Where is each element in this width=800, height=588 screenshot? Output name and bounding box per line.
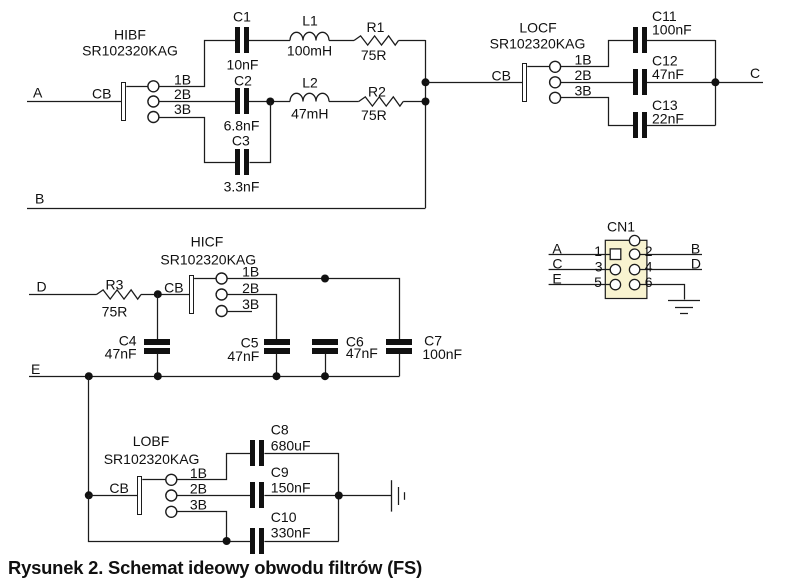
label 2B HIBF bbox=[174, 86, 191, 102]
wire L1 to R1 bbox=[329, 40, 354, 42]
node B label bbox=[35, 191, 44, 207]
svg-text:R2: R2 bbox=[368, 83, 386, 99]
wire right rail HIBF bbox=[425, 40, 427, 208]
wire 1B row HICF bbox=[228, 279, 400, 340]
CN1 label bbox=[607, 218, 635, 234]
wire rail LOBF bbox=[338, 453, 340, 541]
CN1 pin 6 bbox=[629, 279, 639, 289]
junction C12 rail bbox=[711, 78, 719, 86]
svg-text:HIBF: HIBF bbox=[114, 27, 146, 43]
wire E row bbox=[29, 376, 400, 378]
svg-text:1B: 1B bbox=[174, 71, 191, 87]
label L2 bbox=[302, 74, 318, 90]
switch LOBF pivot bbox=[142, 479, 166, 481]
CB label HICF bbox=[164, 279, 183, 295]
svg-text:A: A bbox=[552, 240, 562, 256]
label 1B LOBF bbox=[190, 465, 207, 481]
svg-text:100nF: 100nF bbox=[422, 346, 462, 362]
switch LOBF contact 1B bbox=[166, 474, 177, 485]
svg-text:C10: C10 bbox=[271, 509, 297, 525]
wire 3B to C3 bbox=[159, 118, 236, 163]
switch LOBF contact 2B bbox=[166, 490, 177, 501]
label C4 bbox=[105, 332, 137, 361]
node E label CN1 bbox=[552, 271, 561, 287]
capacitor C5 bbox=[264, 339, 290, 354]
ground CN1 bbox=[668, 301, 700, 314]
wire bottom rail LOBF bbox=[89, 496, 251, 542]
svg-text:A: A bbox=[33, 85, 43, 101]
label 2B LOCF bbox=[575, 67, 592, 83]
label 3B HICF bbox=[242, 296, 259, 312]
junction 3B bottom bbox=[223, 537, 231, 545]
svg-text:100nF: 100nF bbox=[652, 22, 692, 38]
resistor R1 bbox=[354, 36, 399, 45]
svg-text:C3: C3 bbox=[232, 132, 250, 148]
svg-text:2B: 2B bbox=[242, 280, 259, 296]
svg-text:SR102320KAG: SR102320KAG bbox=[104, 451, 200, 467]
resistor R2 bbox=[359, 97, 404, 106]
wire CB LOCF bbox=[426, 82, 523, 84]
svg-text:1B: 1B bbox=[190, 465, 207, 481]
label 3B HIBF bbox=[174, 101, 191, 117]
switch LOCF common bar bbox=[523, 64, 527, 102]
wire pin4 to D bbox=[640, 269, 702, 271]
svg-text:22nF: 22nF bbox=[652, 111, 684, 127]
node A label bbox=[33, 85, 43, 101]
svg-text:47nF: 47nF bbox=[652, 66, 684, 82]
svg-text:LOBF: LOBF bbox=[133, 433, 170, 449]
svg-text:CB: CB bbox=[164, 279, 183, 295]
svg-text:3B: 3B bbox=[190, 497, 207, 513]
switch HICF contact 3B bbox=[216, 306, 227, 317]
svg-text:SR102320KAG: SR102320KAG bbox=[82, 43, 178, 59]
CN1 pin 2 bbox=[629, 249, 639, 259]
HIBF switch label bbox=[82, 27, 178, 59]
label 75R R1 bbox=[361, 47, 387, 63]
switch HIBF contact 2B bbox=[148, 96, 159, 107]
svg-text:R1: R1 bbox=[367, 19, 385, 35]
label 2B LOBF bbox=[190, 481, 207, 497]
svg-text:3: 3 bbox=[595, 259, 603, 275]
wire C12 to C bbox=[647, 82, 763, 84]
capacitor C3 bbox=[235, 149, 249, 175]
svg-text:E: E bbox=[31, 361, 40, 377]
svg-text:2: 2 bbox=[645, 243, 653, 259]
svg-text:C: C bbox=[750, 65, 760, 81]
wire D input bbox=[29, 294, 97, 296]
svg-text:2B: 2B bbox=[174, 86, 191, 102]
pin number 2 bbox=[645, 243, 653, 259]
label 75R R2 bbox=[361, 107, 387, 123]
junction CB LOBF bbox=[85, 491, 93, 499]
pin number 3 bbox=[595, 259, 603, 275]
pin number 1 bbox=[594, 243, 602, 259]
wire R2 to rail bbox=[403, 101, 425, 103]
wire C2 to L2 bbox=[249, 101, 290, 103]
CN1 index circle bbox=[629, 235, 639, 245]
junction E-LOBF bbox=[85, 372, 93, 380]
switch HICF pivot bbox=[194, 278, 216, 280]
junction rail-CB LOCF bbox=[422, 78, 430, 86]
CB label LOBF bbox=[109, 480, 128, 496]
svg-text:E: E bbox=[552, 271, 561, 287]
svg-text:CN1: CN1 bbox=[607, 218, 635, 234]
svg-text:4: 4 bbox=[645, 259, 653, 275]
wire C6 bottom bbox=[325, 353, 327, 376]
wire C3 to node bbox=[250, 102, 271, 163]
node C label CN1 bbox=[552, 255, 562, 271]
capacitor C6 bbox=[312, 339, 338, 354]
capacitor C7 bbox=[386, 339, 412, 354]
wire CB LOBF bbox=[89, 495, 138, 497]
svg-text:R3: R3 bbox=[106, 276, 124, 292]
switch LOBF common bar bbox=[138, 477, 142, 515]
svg-text:D: D bbox=[37, 278, 47, 294]
switch HICF contact 2B bbox=[216, 289, 227, 300]
svg-text:3B: 3B bbox=[174, 101, 191, 117]
switch HIBF common bar bbox=[122, 83, 126, 121]
node D label CN1 bbox=[691, 255, 701, 271]
wire L2 to R2 bbox=[329, 101, 359, 103]
switch HIBF contact 3B bbox=[148, 112, 159, 123]
wire R3 to bar bbox=[141, 294, 190, 296]
HICF switch label bbox=[160, 233, 256, 267]
label C7 bbox=[422, 332, 462, 361]
junction C9 rail bbox=[335, 492, 343, 500]
svg-text:100mH: 100mH bbox=[287, 43, 332, 59]
label C12 bbox=[652, 53, 684, 82]
svg-text:5: 5 bbox=[594, 274, 602, 290]
svg-text:680uF: 680uF bbox=[271, 438, 311, 454]
junction R3-C4 bbox=[154, 290, 162, 298]
switch HIBF pivot bbox=[126, 86, 148, 88]
junction E-C4 bbox=[154, 372, 162, 380]
wire 3B stub bbox=[227, 311, 252, 313]
svg-text:2B: 2B bbox=[190, 481, 207, 497]
switch LOBF contact 3B bbox=[166, 506, 177, 517]
switch LOCF contact 3B bbox=[550, 92, 561, 103]
svg-text:L2: L2 bbox=[302, 74, 318, 90]
svg-text:CB: CB bbox=[92, 86, 111, 102]
label 1B LOCF bbox=[575, 52, 592, 68]
svg-text:C8: C8 bbox=[271, 422, 289, 438]
label C1 bbox=[233, 8, 251, 24]
wire R1 to right rail bbox=[399, 40, 426, 42]
svg-text:D: D bbox=[691, 255, 701, 271]
wire C11 right bbox=[647, 40, 715, 42]
junction rail-row2 bbox=[422, 98, 430, 106]
svg-text:47nF: 47nF bbox=[227, 348, 259, 364]
wire pin6 to ground bbox=[640, 285, 685, 300]
svg-text:L1: L1 bbox=[302, 12, 318, 28]
wire C7 bottom bbox=[399, 353, 401, 376]
label C13 bbox=[652, 97, 684, 126]
svg-text:HICF: HICF bbox=[191, 233, 224, 249]
node D label bbox=[37, 278, 47, 294]
svg-text:1: 1 bbox=[594, 243, 602, 259]
label 3B LOCF bbox=[575, 83, 592, 99]
svg-text:10nF: 10nF bbox=[227, 56, 259, 72]
svg-text:C9: C9 bbox=[271, 464, 289, 480]
wire pin2 to B bbox=[640, 254, 702, 256]
connector CN1 body bbox=[605, 240, 647, 298]
wire A input bbox=[27, 101, 122, 103]
wire B bbox=[27, 208, 426, 210]
wire C10 right bbox=[264, 541, 338, 543]
pin number 5 bbox=[594, 274, 602, 290]
resistor R3 bbox=[97, 290, 142, 299]
svg-text:2B: 2B bbox=[575, 67, 592, 83]
capacitor C11 bbox=[633, 27, 647, 53]
CB label HIBF bbox=[92, 86, 111, 102]
svg-text:47mH: 47mH bbox=[291, 105, 328, 121]
junction 1B-C6 bbox=[321, 275, 329, 283]
label 1B HIBF bbox=[174, 71, 191, 87]
label C5 bbox=[227, 334, 259, 363]
wire C4 bottom bbox=[157, 353, 159, 376]
svg-text:75R: 75R bbox=[361, 107, 387, 123]
wire 3B down bbox=[177, 512, 227, 542]
svg-text:Rysunek 2. Schemat ideowy obwo: Rysunek 2. Schemat ideowy obwodu filtrów… bbox=[8, 557, 422, 578]
wire E to pin5 bbox=[549, 284, 611, 286]
LOBF switch label bbox=[104, 433, 200, 467]
label C8 bbox=[271, 422, 311, 454]
label 1B HICF bbox=[242, 264, 259, 280]
capacitor C4 bbox=[144, 339, 170, 354]
label 100mH bbox=[287, 43, 332, 59]
wire rail LOCF bbox=[715, 40, 717, 126]
label C3 bbox=[232, 132, 250, 148]
switch HIBF contact 1B bbox=[148, 81, 159, 92]
caption bbox=[8, 557, 422, 578]
svg-text:47nF: 47nF bbox=[105, 345, 137, 361]
wire E down to LOBF bbox=[88, 376, 90, 495]
svg-text:3.3nF: 3.3nF bbox=[224, 178, 260, 194]
node A label CN1 bbox=[552, 240, 562, 256]
node E label bbox=[31, 361, 40, 377]
switch LOCF contact 2B bbox=[550, 77, 561, 88]
CN1 pin 3 bbox=[610, 264, 620, 274]
capacitor C8 bbox=[250, 440, 264, 466]
wire 1B to C11 bbox=[561, 41, 634, 67]
switch HICF common bar bbox=[190, 276, 194, 314]
inductor L2 bbox=[290, 93, 329, 101]
label C2 bbox=[234, 72, 252, 88]
svg-text:6.8nF: 6.8nF bbox=[224, 118, 260, 134]
wire 2B row LOBF bbox=[177, 495, 251, 497]
label 3.3nF bbox=[224, 178, 260, 194]
svg-text:C: C bbox=[552, 255, 562, 271]
label 6.8nF bbox=[224, 118, 260, 134]
svg-text:LOCF: LOCF bbox=[519, 20, 556, 36]
switch LOCF pivot bbox=[527, 66, 549, 68]
node B label CN1 bbox=[691, 240, 700, 256]
svg-text:CB: CB bbox=[109, 480, 128, 496]
CN1 pin 5 bbox=[610, 279, 620, 289]
CN1 pin 1 square bbox=[610, 249, 621, 260]
label C11 bbox=[652, 8, 692, 38]
capacitor C2 bbox=[235, 88, 249, 114]
label 47mH bbox=[291, 105, 328, 121]
CB label LOCF bbox=[492, 67, 511, 83]
wire C to pin3 bbox=[549, 269, 611, 271]
svg-text:75R: 75R bbox=[102, 303, 128, 319]
svg-text:1B: 1B bbox=[242, 264, 259, 280]
capacitor C1 bbox=[235, 27, 249, 53]
switch LOCF contact 1B bbox=[550, 61, 561, 72]
capacitor C13 bbox=[633, 112, 647, 138]
svg-text:330nF: 330nF bbox=[271, 525, 311, 541]
junction E-C5 bbox=[273, 372, 281, 380]
label 3B LOBF bbox=[190, 497, 207, 513]
svg-text:1B: 1B bbox=[575, 52, 592, 68]
label C9 bbox=[271, 464, 311, 496]
wire 2B row LOCF bbox=[561, 82, 633, 84]
svg-text:SR102320KAG: SR102320KAG bbox=[490, 36, 586, 52]
svg-text:3B: 3B bbox=[575, 83, 592, 99]
pin number 6 bbox=[645, 274, 653, 290]
LOCF switch label bbox=[490, 20, 586, 52]
ground LOBF bbox=[392, 480, 405, 511]
node C label bbox=[750, 65, 760, 81]
svg-text:CB: CB bbox=[492, 67, 511, 83]
wire 1B to C8 bbox=[177, 454, 251, 480]
svg-text:B: B bbox=[691, 240, 700, 256]
svg-text:3B: 3B bbox=[242, 296, 259, 312]
svg-text:C1: C1 bbox=[233, 8, 251, 24]
label L1 bbox=[302, 12, 318, 28]
wire C5 bottom bbox=[276, 353, 278, 376]
svg-text:B: B bbox=[35, 191, 44, 207]
label C6 bbox=[346, 333, 378, 361]
wire A to pin1 bbox=[549, 254, 611, 256]
junction C2-C3 bbox=[266, 98, 274, 106]
CN1 pin 4 bbox=[629, 264, 639, 274]
label 10nF bbox=[227, 56, 259, 72]
label R3 bbox=[106, 276, 124, 292]
wire 1B to top row bbox=[159, 41, 236, 87]
label R1 bbox=[367, 19, 385, 35]
wire C1 to L1 bbox=[249, 40, 290, 42]
wire C4 top bbox=[157, 294, 159, 339]
capacitor C10 bbox=[250, 528, 264, 554]
wire 2B row bbox=[159, 101, 235, 103]
wire 2B to C5 bbox=[228, 295, 277, 340]
capacitor C9 bbox=[250, 482, 264, 508]
wire C8 right bbox=[264, 453, 338, 455]
switch HICF contact 1B bbox=[216, 273, 227, 284]
label C10 bbox=[271, 509, 311, 541]
junction E-C6 bbox=[321, 372, 329, 380]
inductor L1 bbox=[290, 32, 329, 40]
svg-text:150nF: 150nF bbox=[271, 480, 311, 496]
label 2B HICF bbox=[242, 280, 259, 296]
wire C9 to ground bbox=[264, 495, 391, 497]
svg-text:47nF: 47nF bbox=[346, 345, 378, 361]
capacitor C12 bbox=[633, 69, 647, 95]
label 75R R3 bbox=[102, 303, 128, 319]
wire C13 right bbox=[647, 125, 715, 127]
svg-text:6: 6 bbox=[645, 274, 653, 290]
pin number 4 bbox=[645, 259, 653, 275]
label R2 bbox=[368, 83, 386, 99]
svg-text:C2: C2 bbox=[234, 72, 252, 88]
wire 3B to C13 bbox=[561, 98, 634, 126]
svg-text:75R: 75R bbox=[361, 47, 387, 63]
